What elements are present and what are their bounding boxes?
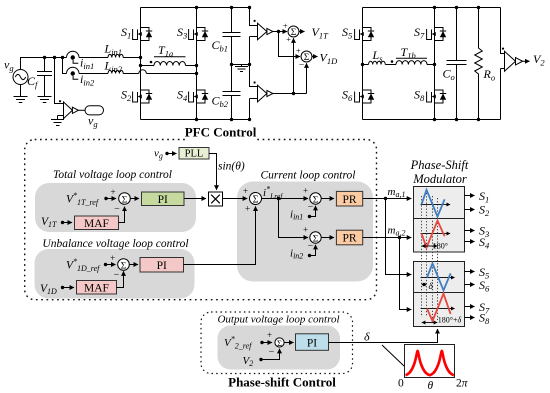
svg-text:+: + [267, 330, 272, 340]
svg-text:MAF: MAF [84, 282, 109, 294]
svg-text:Phase-Shift: Phase-Shift [410, 158, 469, 172]
svg-text:Σ: Σ [122, 195, 128, 205]
svg-text:+: + [110, 187, 115, 197]
svg-text:Σ: Σ [277, 338, 282, 348]
svg-text:180°+δ: 180°+δ [438, 315, 462, 324]
svg-text:+: + [303, 225, 308, 235]
svg-text:−: − [308, 202, 314, 213]
svg-text:+: + [303, 186, 308, 196]
svg-text:PI: PI [307, 338, 317, 350]
svg-text:θ: θ [428, 380, 434, 392]
svg-text:PFC Control: PFC Control [185, 125, 257, 140]
svg-text:−: − [269, 347, 275, 358]
svg-text:−: − [299, 61, 304, 71]
svg-text:0: 0 [398, 378, 404, 390]
svg-text:sin(θ): sin(θ) [218, 161, 245, 173]
svg-text:Σ: Σ [313, 195, 319, 205]
svg-text:2π: 2π [456, 378, 469, 390]
svg-text:Output voltage loop control: Output voltage loop control [217, 314, 339, 326]
svg-text:Σ: Σ [253, 195, 259, 206]
svg-text:δ: δ [429, 282, 434, 292]
svg-text:Σ: Σ [304, 53, 310, 63]
svg-text:180°: 180° [433, 242, 448, 251]
svg-text:Phase-shift Control: Phase-shift Control [228, 375, 336, 390]
svg-text:Modulator: Modulator [412, 172, 467, 186]
svg-text:+: + [243, 186, 248, 196]
svg-text:−: − [114, 270, 120, 281]
svg-text:Unbalance voltage loop control: Unbalance voltage loop control [42, 238, 188, 250]
svg-text:Σ: Σ [121, 261, 127, 271]
svg-text:−: − [308, 241, 314, 252]
svg-text:PR: PR [342, 233, 356, 245]
svg-text:Total voltage loop control: Total voltage loop control [53, 169, 172, 181]
svg-text:PR: PR [342, 194, 356, 206]
svg-text:PI: PI [157, 260, 167, 272]
svg-text:+: + [245, 204, 250, 214]
svg-text:PI: PI [158, 194, 168, 206]
svg-text:Σ: Σ [291, 28, 297, 38]
svg-text:+: + [296, 46, 301, 56]
svg-text:−: − [114, 204, 120, 215]
svg-text:MAF: MAF [84, 218, 109, 230]
svg-text:δ: δ [364, 330, 370, 344]
svg-text:+: + [286, 34, 291, 44]
svg-text:PLL: PLL [185, 149, 204, 160]
svg-text:Σ: Σ [313, 234, 319, 244]
svg-text:+: + [283, 21, 288, 31]
svg-text:+: + [110, 253, 115, 263]
svg-text:Current loop control: Current loop control [261, 170, 356, 182]
